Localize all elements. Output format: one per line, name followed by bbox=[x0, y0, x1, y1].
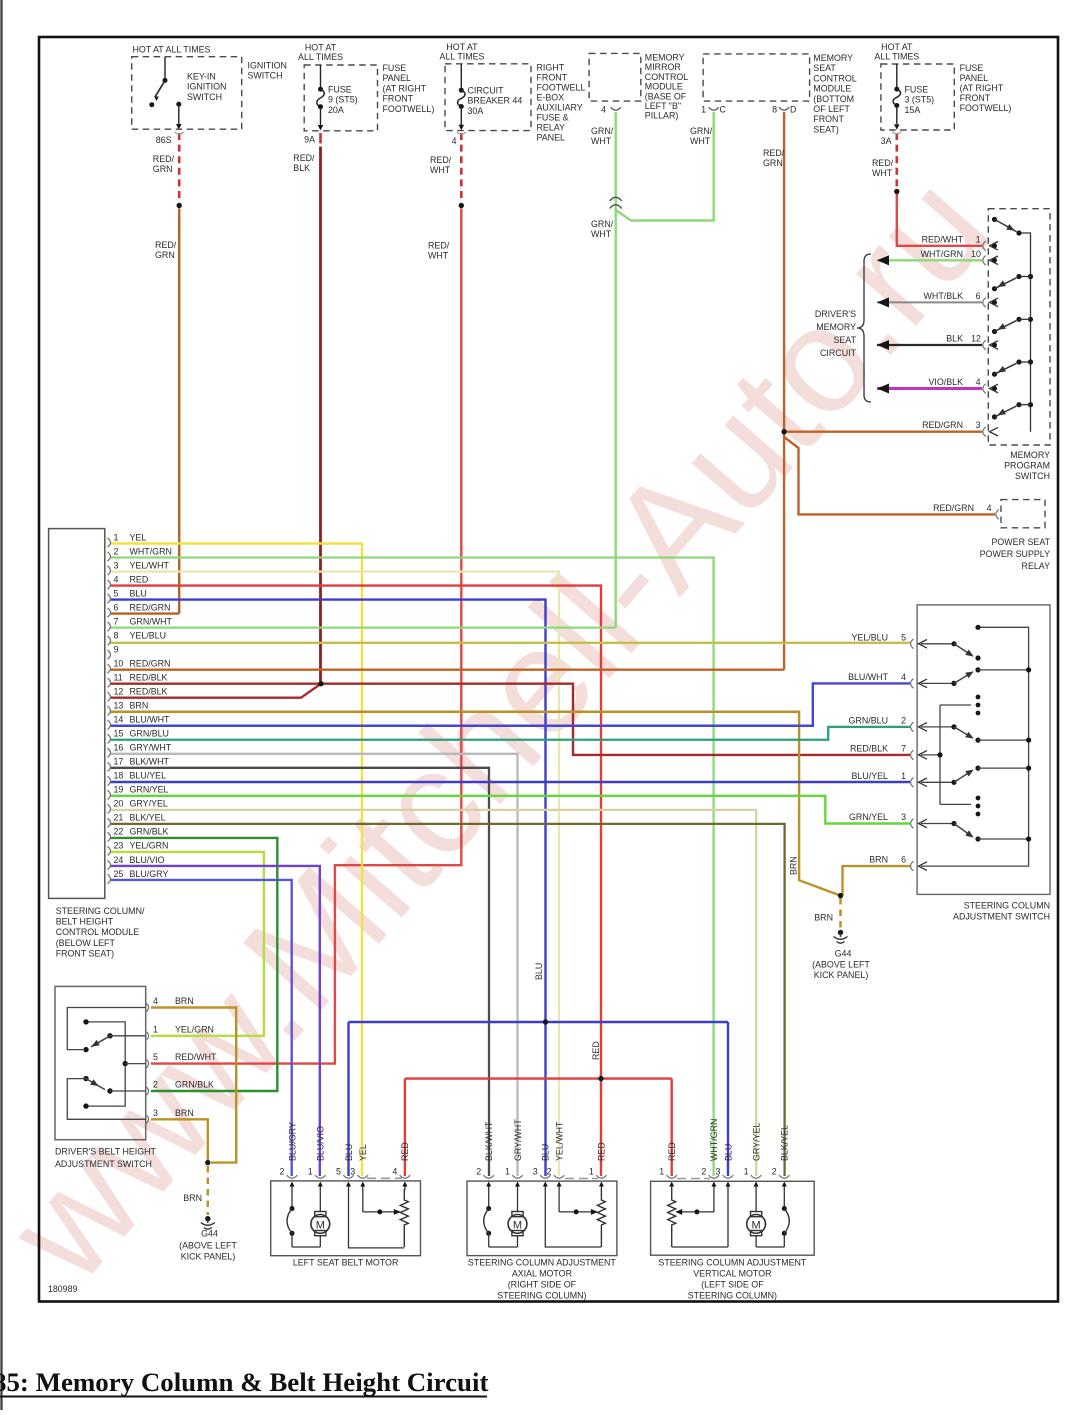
svg-text:BLU/WHT: BLU/WHT bbox=[848, 672, 889, 682]
svg-text:STEERING COLUMN ADJUSTMENT: STEERING COLUMN ADJUSTMENT bbox=[658, 1257, 807, 1267]
svg-text:FUSE: FUSE bbox=[383, 63, 407, 73]
svg-text:GRN/YEL: GRN/YEL bbox=[130, 785, 169, 795]
svg-text:STEERING COLUMN ADJUSTMENT: STEERING COLUMN ADJUSTMENT bbox=[468, 1257, 617, 1267]
svg-text:9A: 9A bbox=[304, 135, 315, 145]
svg-text:BRN: BRN bbox=[183, 1193, 202, 1203]
svg-text:SEAT: SEAT bbox=[833, 335, 856, 345]
svg-text:3: 3 bbox=[716, 1167, 721, 1177]
svg-text:KICK PANEL): KICK PANEL) bbox=[181, 1252, 236, 1262]
svg-text:21: 21 bbox=[114, 813, 124, 823]
svg-text:RELAY: RELAY bbox=[1022, 561, 1051, 571]
svg-text:13: 13 bbox=[114, 701, 124, 711]
svg-text:30A: 30A bbox=[468, 106, 484, 116]
svg-text:WHT/BLK: WHT/BLK bbox=[924, 291, 964, 301]
svg-text:2: 2 bbox=[901, 715, 906, 725]
svg-text:G44: G44 bbox=[201, 1229, 218, 1239]
svg-text:FUSE &: FUSE & bbox=[537, 113, 569, 123]
svg-text:10: 10 bbox=[971, 249, 981, 259]
svg-text:KICK PANEL): KICK PANEL) bbox=[814, 970, 869, 980]
svg-text:SWITCH: SWITCH bbox=[1015, 471, 1050, 481]
svg-text:GRN/BLK: GRN/BLK bbox=[130, 827, 169, 837]
svg-text:FRONT: FRONT bbox=[383, 94, 414, 104]
svg-text:3 (ST5): 3 (ST5) bbox=[905, 95, 935, 105]
svg-text:MIRROR: MIRROR bbox=[645, 62, 681, 72]
svg-text:BLU/VIO: BLU/VIO bbox=[130, 855, 165, 865]
svg-text:KEY-IN: KEY-IN bbox=[187, 72, 216, 82]
svg-text:ADJUSTMENT SWITCH: ADJUSTMENT SWITCH bbox=[55, 1159, 152, 1169]
svg-text:25: 25 bbox=[114, 869, 124, 879]
svg-text:GRN: GRN bbox=[155, 250, 175, 260]
svg-text:4: 4 bbox=[976, 377, 981, 387]
svg-text:BELT HEIGHT: BELT HEIGHT bbox=[56, 917, 114, 927]
svg-text:YEL: YEL bbox=[130, 532, 147, 542]
svg-text:(RIGHT SIDE OF: (RIGHT SIDE OF bbox=[508, 1280, 577, 1290]
svg-text:PANEL: PANEL bbox=[383, 73, 412, 83]
svg-text:18: 18 bbox=[114, 771, 124, 781]
svg-text:6: 6 bbox=[901, 855, 906, 865]
svg-text:RED: RED bbox=[130, 574, 149, 584]
svg-text:LEFT "B": LEFT "B" bbox=[645, 101, 681, 111]
svg-text:WHT/GRN: WHT/GRN bbox=[921, 249, 963, 259]
svg-text:20: 20 bbox=[114, 799, 124, 809]
svg-text:4: 4 bbox=[987, 503, 992, 513]
svg-text:YEL/BLU: YEL/BLU bbox=[851, 632, 888, 642]
svg-text:2: 2 bbox=[701, 1167, 706, 1177]
svg-text:3: 3 bbox=[976, 420, 981, 430]
svg-text:23: 23 bbox=[114, 841, 124, 851]
svg-text:BRN: BRN bbox=[175, 1108, 194, 1118]
svg-text:MEMORY: MEMORY bbox=[645, 53, 685, 63]
svg-text:VERTICAL MOTOR: VERTICAL MOTOR bbox=[693, 1268, 771, 1278]
svg-text:85: Memory Column & Belt Heigh: 85: Memory Column & Belt Height Circuit bbox=[0, 1367, 488, 1397]
svg-text:4: 4 bbox=[601, 105, 606, 115]
svg-text:5: 5 bbox=[336, 1167, 341, 1177]
svg-text:8: 8 bbox=[772, 105, 777, 115]
svg-text:PANEL: PANEL bbox=[537, 133, 566, 143]
svg-text:RED/: RED/ bbox=[430, 155, 452, 165]
svg-text:RELAY: RELAY bbox=[537, 123, 566, 133]
svg-text:ALL TIMES: ALL TIMES bbox=[440, 51, 485, 61]
svg-text:IGNITION: IGNITION bbox=[248, 61, 287, 71]
svg-text:180989: 180989 bbox=[48, 1284, 77, 1294]
svg-text:24: 24 bbox=[114, 855, 124, 865]
svg-text:RED/: RED/ bbox=[428, 241, 450, 251]
svg-text:(AT RIGHT: (AT RIGHT bbox=[960, 83, 1004, 93]
svg-text:SEAT): SEAT) bbox=[813, 124, 839, 134]
svg-text:4: 4 bbox=[452, 136, 457, 146]
svg-text:3: 3 bbox=[350, 1167, 355, 1177]
svg-text:BRN: BRN bbox=[175, 996, 194, 1006]
svg-text:POWER SEAT: POWER SEAT bbox=[991, 537, 1050, 547]
svg-text:2: 2 bbox=[153, 1080, 158, 1090]
svg-text:HOT AT ALL TIMES: HOT AT ALL TIMES bbox=[133, 45, 211, 55]
svg-text:RED/BLK: RED/BLK bbox=[850, 743, 888, 753]
svg-text:RED/: RED/ bbox=[872, 158, 894, 168]
svg-text:CONTROL: CONTROL bbox=[813, 73, 856, 83]
svg-text:BLK/WHT: BLK/WHT bbox=[484, 1121, 494, 1161]
svg-text:DRIVER'S BELT HEIGHT: DRIVER'S BELT HEIGHT bbox=[55, 1147, 157, 1157]
svg-text:1: 1 bbox=[308, 1167, 313, 1177]
svg-text:BLK: BLK bbox=[293, 163, 310, 173]
svg-text:WHT: WHT bbox=[872, 168, 893, 178]
svg-text:BRN: BRN bbox=[869, 855, 888, 865]
svg-text:CIRCUIT: CIRCUIT bbox=[468, 86, 505, 96]
svg-text:1: 1 bbox=[589, 1167, 594, 1177]
svg-text:BLK/WHT: BLK/WHT bbox=[130, 757, 170, 767]
svg-text:CONTROL: CONTROL bbox=[645, 72, 688, 82]
svg-text:GRN/YEL: GRN/YEL bbox=[849, 812, 888, 822]
svg-text:ALL TIMES: ALL TIMES bbox=[298, 52, 343, 62]
svg-text:RED: RED bbox=[667, 1142, 677, 1161]
svg-text:YEL/GRN: YEL/GRN bbox=[175, 1024, 214, 1034]
svg-text:GRY/YEL: GRY/YEL bbox=[751, 1123, 761, 1161]
svg-text:YEL/WHT: YEL/WHT bbox=[554, 1121, 564, 1161]
svg-text:2: 2 bbox=[547, 1167, 552, 1177]
svg-text:BLU: BLU bbox=[130, 588, 147, 598]
svg-text:FOOTWELL: FOOTWELL bbox=[537, 83, 586, 93]
svg-text:MEMORY: MEMORY bbox=[1010, 450, 1050, 460]
svg-text:(LEFT SIDE OF: (LEFT SIDE OF bbox=[701, 1280, 764, 1290]
svg-text:STEERING COLUMN: STEERING COLUMN bbox=[964, 901, 1050, 911]
svg-text:11: 11 bbox=[114, 673, 123, 683]
svg-text:12: 12 bbox=[114, 687, 124, 697]
svg-text:RED/WHT: RED/WHT bbox=[175, 1052, 217, 1062]
svg-text:RED/: RED/ bbox=[293, 153, 315, 163]
svg-text:1: 1 bbox=[153, 1024, 158, 1034]
svg-text:YEL: YEL bbox=[358, 1144, 368, 1161]
svg-text:FOOTWELL): FOOTWELL) bbox=[383, 104, 435, 114]
svg-text:IGNITION: IGNITION bbox=[187, 82, 226, 92]
svg-text:ALL TIMES: ALL TIMES bbox=[874, 51, 919, 61]
svg-text:RED/: RED/ bbox=[153, 154, 175, 164]
svg-text:WHT/GRN: WHT/GRN bbox=[130, 546, 172, 556]
svg-text:WHT/GRN: WHT/GRN bbox=[709, 1119, 719, 1161]
svg-text:3A: 3A bbox=[881, 136, 892, 146]
svg-text:22: 22 bbox=[114, 827, 124, 837]
svg-text:GRN/WHT: GRN/WHT bbox=[130, 616, 173, 626]
svg-text:FRONT: FRONT bbox=[537, 73, 568, 83]
svg-text:E-BOX: E-BOX bbox=[537, 93, 565, 103]
svg-text:STEERING COLUMN/: STEERING COLUMN/ bbox=[56, 906, 145, 916]
svg-text:GRN/BLU: GRN/BLU bbox=[130, 729, 169, 739]
svg-text:1: 1 bbox=[659, 1167, 664, 1177]
svg-text:2: 2 bbox=[476, 1167, 481, 1177]
svg-text:GRN: GRN bbox=[763, 158, 783, 168]
svg-text:9: 9 bbox=[114, 644, 119, 654]
svg-text:1: 1 bbox=[701, 105, 706, 115]
svg-text:WHT: WHT bbox=[591, 229, 612, 239]
svg-text:15A: 15A bbox=[905, 105, 921, 115]
svg-text:GRN: GRN bbox=[153, 164, 173, 174]
svg-text:GRN/: GRN/ bbox=[690, 126, 713, 136]
svg-text:1: 1 bbox=[744, 1167, 749, 1177]
svg-text:GRN/BLK: GRN/BLK bbox=[175, 1080, 214, 1090]
svg-text:5: 5 bbox=[114, 588, 119, 598]
svg-text:BRN: BRN bbox=[814, 913, 833, 923]
svg-text:1: 1 bbox=[505, 1167, 510, 1177]
svg-text:MEMORY: MEMORY bbox=[813, 53, 853, 63]
svg-text:RED/BLK: RED/BLK bbox=[130, 673, 168, 683]
svg-text:17: 17 bbox=[114, 757, 124, 767]
svg-text:2: 2 bbox=[114, 546, 119, 556]
svg-text:BLU/GRY: BLU/GRY bbox=[130, 869, 169, 879]
svg-text:MEMORY: MEMORY bbox=[816, 322, 856, 332]
svg-text:GRY/WHT: GRY/WHT bbox=[130, 743, 172, 753]
svg-text:VIO/BLK: VIO/BLK bbox=[928, 377, 963, 387]
svg-text:C: C bbox=[720, 105, 727, 115]
svg-text:RED/GRN: RED/GRN bbox=[130, 658, 171, 668]
svg-text:MODULE: MODULE bbox=[645, 82, 683, 92]
svg-text:RED: RED bbox=[591, 1041, 601, 1060]
svg-text:86S: 86S bbox=[156, 135, 172, 145]
svg-text:YEL/WHT: YEL/WHT bbox=[130, 560, 170, 570]
svg-text:BLU: BLU bbox=[541, 1144, 551, 1161]
svg-text:POWER SUPPLY: POWER SUPPLY bbox=[980, 549, 1050, 559]
svg-text:20A: 20A bbox=[328, 105, 344, 115]
svg-text:FRONT: FRONT bbox=[960, 93, 991, 103]
svg-text:(BASE OF: (BASE OF bbox=[645, 91, 687, 101]
svg-text:GRN/BLU: GRN/BLU bbox=[849, 715, 888, 725]
svg-text:STEERING COLUMN): STEERING COLUMN) bbox=[497, 1291, 586, 1301]
svg-text:D: D bbox=[790, 105, 796, 115]
svg-text:LEFT SEAT BELT MOTOR: LEFT SEAT BELT MOTOR bbox=[293, 1258, 399, 1268]
svg-text:BRN: BRN bbox=[789, 856, 799, 875]
svg-text:DRIVER'S: DRIVER'S bbox=[815, 309, 856, 319]
svg-text:WHT: WHT bbox=[430, 165, 451, 175]
svg-text:YEL/BLU: YEL/BLU bbox=[130, 630, 167, 640]
svg-text:RED/: RED/ bbox=[155, 240, 177, 250]
svg-text:BLU/WHT: BLU/WHT bbox=[130, 715, 171, 725]
svg-text:1: 1 bbox=[901, 771, 906, 781]
svg-text:3: 3 bbox=[153, 1108, 158, 1118]
svg-text:BLU/GRY: BLU/GRY bbox=[287, 1122, 297, 1161]
svg-text:OF LEFT: OF LEFT bbox=[813, 104, 850, 114]
svg-text:GRY/WHT: GRY/WHT bbox=[513, 1119, 523, 1161]
svg-text:WHT: WHT bbox=[428, 251, 449, 261]
svg-text:1: 1 bbox=[976, 234, 981, 244]
svg-text:FUSE: FUSE bbox=[960, 63, 984, 73]
svg-text:4: 4 bbox=[153, 996, 158, 1006]
svg-text:BLU/YEL: BLU/YEL bbox=[851, 771, 888, 781]
svg-text:FUSE: FUSE bbox=[905, 85, 929, 95]
svg-text:7: 7 bbox=[901, 743, 906, 753]
svg-text:2: 2 bbox=[280, 1167, 285, 1177]
svg-text:PROGRAM: PROGRAM bbox=[1004, 461, 1050, 471]
svg-text:G44: G44 bbox=[835, 949, 852, 959]
svg-text:15: 15 bbox=[114, 729, 124, 739]
svg-text:SEAT: SEAT bbox=[813, 63, 836, 73]
svg-text:FRONT: FRONT bbox=[813, 114, 844, 124]
svg-text:6: 6 bbox=[114, 602, 119, 612]
svg-text:RED/: RED/ bbox=[763, 148, 785, 158]
svg-text:RED/GRN: RED/GRN bbox=[130, 602, 171, 612]
svg-text:YEL/GRN: YEL/GRN bbox=[130, 841, 169, 851]
svg-text:PANEL: PANEL bbox=[960, 73, 989, 83]
svg-text:BREAKER 44: BREAKER 44 bbox=[468, 96, 523, 106]
svg-text:12: 12 bbox=[971, 334, 981, 344]
svg-text:SWITCH: SWITCH bbox=[187, 92, 222, 102]
svg-text:BLU/YEL: BLU/YEL bbox=[130, 771, 167, 781]
svg-text:4: 4 bbox=[901, 672, 906, 682]
svg-text:RIGHT: RIGHT bbox=[537, 63, 565, 73]
svg-text:BLK/YEL: BLK/YEL bbox=[130, 813, 166, 823]
svg-text:8: 8 bbox=[114, 630, 119, 640]
svg-text:6: 6 bbox=[976, 291, 981, 301]
svg-text:4: 4 bbox=[114, 574, 119, 584]
svg-text:SWITCH: SWITCH bbox=[248, 71, 283, 81]
svg-text:16: 16 bbox=[114, 743, 124, 753]
svg-text:RED/WHT: RED/WHT bbox=[922, 234, 964, 244]
svg-text:BRN: BRN bbox=[130, 701, 149, 711]
svg-text:RED: RED bbox=[400, 1142, 410, 1161]
svg-text:(BELOW LEFT: (BELOW LEFT bbox=[56, 938, 116, 948]
svg-text:FOOTWELL): FOOTWELL) bbox=[960, 103, 1012, 113]
svg-text:9 (ST5): 9 (ST5) bbox=[328, 95, 358, 105]
svg-text:FRONT SEAT): FRONT SEAT) bbox=[56, 948, 114, 958]
svg-text:3: 3 bbox=[114, 560, 119, 570]
svg-text:BLK: BLK bbox=[946, 334, 963, 344]
svg-text:M: M bbox=[316, 1219, 325, 1231]
svg-text:BLU/VIO: BLU/VIO bbox=[316, 1126, 326, 1161]
svg-text:5: 5 bbox=[153, 1052, 158, 1062]
svg-text:2: 2 bbox=[772, 1167, 777, 1177]
svg-text:3: 3 bbox=[533, 1167, 538, 1177]
svg-text:7: 7 bbox=[114, 616, 119, 626]
svg-text:(AT RIGHT: (AT RIGHT bbox=[383, 83, 427, 93]
svg-text:RED/GRN: RED/GRN bbox=[922, 420, 963, 430]
svg-text:10: 10 bbox=[114, 658, 124, 668]
svg-text:AUXILIARY: AUXILIARY bbox=[537, 103, 583, 113]
svg-text:RED/GRN: RED/GRN bbox=[933, 503, 974, 513]
svg-text:19: 19 bbox=[114, 785, 124, 795]
svg-text:CONTROL MODULE: CONTROL MODULE bbox=[56, 927, 140, 937]
svg-text:GRY/YEL: GRY/YEL bbox=[130, 799, 168, 809]
svg-text:WHT: WHT bbox=[591, 136, 612, 146]
svg-text:(ABOVE LEFT: (ABOVE LEFT bbox=[179, 1241, 237, 1251]
svg-text:BLU: BLU bbox=[534, 963, 544, 980]
svg-text:FUSE: FUSE bbox=[328, 85, 352, 95]
svg-text:RED: RED bbox=[597, 1142, 607, 1161]
svg-text:PILLAR): PILLAR) bbox=[645, 111, 679, 121]
svg-text:BLK/YEL: BLK/YEL bbox=[780, 1125, 790, 1161]
svg-text:BLU: BLU bbox=[344, 1144, 354, 1161]
svg-text:BLU: BLU bbox=[723, 1144, 733, 1161]
svg-text:M: M bbox=[513, 1219, 522, 1231]
svg-text:4: 4 bbox=[392, 1167, 397, 1177]
svg-text:STEERING COLUMN): STEERING COLUMN) bbox=[688, 1291, 777, 1301]
svg-text:3: 3 bbox=[901, 812, 906, 822]
svg-text:(ABOVE LEFT: (ABOVE LEFT bbox=[812, 960, 870, 970]
svg-text:RED/BLK: RED/BLK bbox=[130, 687, 168, 697]
svg-text:WHT: WHT bbox=[690, 136, 711, 146]
svg-text:GRN/: GRN/ bbox=[591, 126, 614, 136]
svg-text:GRN/: GRN/ bbox=[591, 219, 614, 229]
svg-text:CIRCUIT: CIRCUIT bbox=[820, 348, 857, 358]
svg-text:(BOTTOM: (BOTTOM bbox=[813, 94, 854, 104]
svg-text:ADJUSTMENT SWITCH: ADJUSTMENT SWITCH bbox=[953, 912, 1050, 922]
svg-text:MODULE: MODULE bbox=[813, 84, 851, 94]
svg-text:5: 5 bbox=[901, 632, 906, 642]
svg-text:M: M bbox=[752, 1219, 761, 1231]
svg-text:14: 14 bbox=[114, 715, 124, 725]
svg-text:AXIAL MOTOR: AXIAL MOTOR bbox=[512, 1268, 572, 1278]
svg-text:1: 1 bbox=[114, 532, 119, 542]
